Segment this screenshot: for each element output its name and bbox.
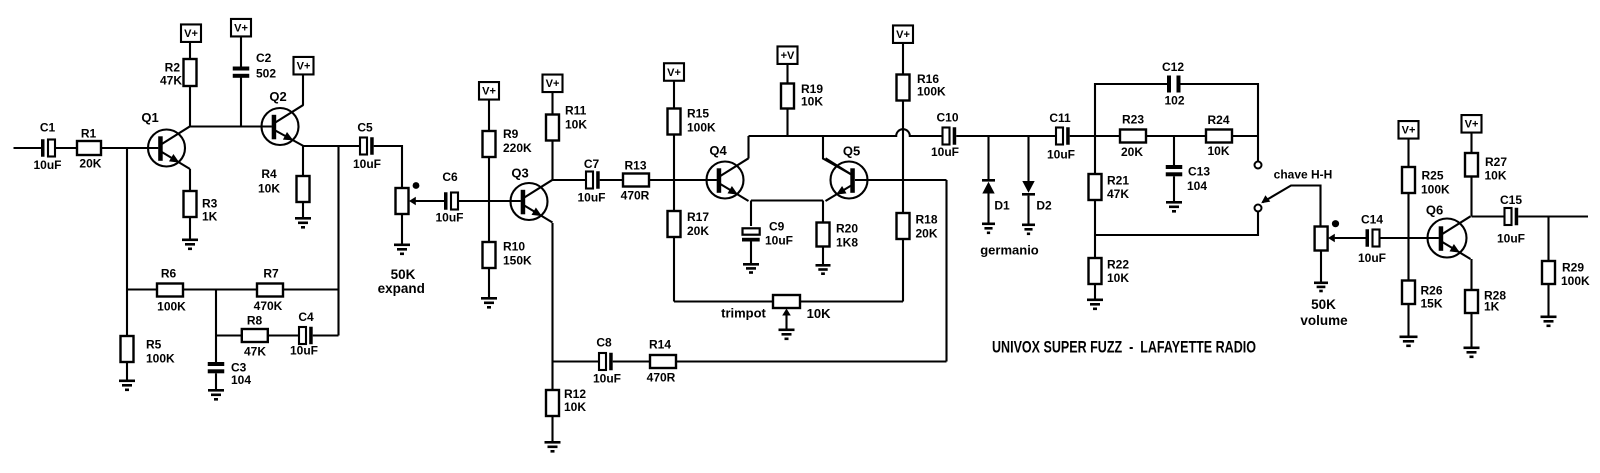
svg-text:47K: 47K: [160, 74, 182, 88]
svg-text:trimpot: trimpot: [721, 305, 766, 320]
svg-text:10K: 10K: [1485, 169, 1507, 183]
wire R4 branch: [302, 146, 304, 176]
resistor R3: [184, 191, 218, 239]
capacitor C4: [290, 310, 318, 358]
power V+ (R15): [664, 63, 684, 108]
svg-text:C4: C4: [298, 310, 314, 324]
ground (R12): [545, 441, 561, 444]
ground (R20): [816, 264, 831, 267]
wire Q4 collector riser: [747, 136, 749, 159]
svg-text:R13: R13: [624, 159, 646, 173]
svg-text:R5: R5: [146, 338, 162, 352]
capacitor C15: [1497, 193, 1525, 246]
svg-text:C11: C11: [1049, 111, 1071, 125]
svg-text:C12: C12: [1162, 60, 1184, 74]
svg-text:C7: C7: [584, 157, 600, 171]
svg-text:expand: expand: [378, 281, 425, 296]
svg-text:C5: C5: [357, 121, 373, 135]
svg-text:10K: 10K: [801, 95, 823, 109]
wire feedback vertical: [337, 146, 339, 336]
resistor R14: [647, 338, 676, 385]
wire C3 branch: [215, 290, 217, 363]
resistor R29: [1542, 261, 1590, 316]
ground (expand pot): [394, 244, 410, 247]
svg-text:10K: 10K: [807, 306, 831, 321]
wire R16 to R18: [902, 101, 904, 214]
ground (volume pot): [1314, 282, 1328, 285]
wire C8 to R14: [613, 360, 650, 362]
svg-text:100K: 100K: [917, 85, 946, 99]
svg-text:47K: 47K: [1107, 187, 1129, 201]
resistor R4: [258, 167, 310, 217]
svg-text:R18: R18: [916, 213, 938, 227]
power V+ (R27): [1462, 115, 1482, 153]
wire R6 to R7: [183, 288, 257, 290]
ground (R26): [1400, 336, 1418, 339]
wire C13 branch: [1173, 136, 1175, 165]
svg-text:10K: 10K: [565, 118, 587, 132]
wire C1 to R1: [55, 147, 77, 149]
transistor Q6: [1426, 203, 1471, 260]
ground (R28): [1464, 347, 1480, 350]
wire Q3 collector to C7: [553, 179, 587, 181]
ground (C9): [743, 263, 759, 266]
power V+ (R2): [181, 24, 201, 59]
wire trimpot rail right: [800, 300, 903, 302]
capacitor C10: [931, 111, 959, 160]
wire R17 to trimpot rail: [673, 237, 675, 302]
ground (D2): [1022, 224, 1035, 227]
svg-text:R2: R2: [165, 61, 181, 75]
svg-text:50K: 50K: [1311, 297, 1336, 312]
svg-text:10uF: 10uF: [290, 344, 318, 358]
svg-text:10uF: 10uF: [1358, 251, 1386, 265]
svg-text:V+: V+: [896, 29, 910, 41]
power V+ (R16): [893, 25, 913, 74]
svg-text:10uF: 10uF: [435, 211, 463, 225]
svg-text:C9: C9: [769, 220, 785, 234]
wire emitter node to C8: [553, 360, 600, 362]
power V+ (R25): [1399, 121, 1419, 167]
svg-text:10K: 10K: [1207, 144, 1229, 158]
wire wiper to C6: [416, 200, 445, 202]
wire Q3 collector to R11: [551, 115, 553, 181]
wire C11 to R23: [1070, 135, 1120, 137]
svg-text:Q1: Q1: [141, 110, 158, 125]
svg-text:+V: +V: [781, 50, 795, 62]
resistor R15: [668, 107, 717, 135]
resistor R6: [157, 267, 186, 314]
svg-text:10K: 10K: [1107, 271, 1129, 285]
wire Q6 emitter to R28: [1470, 259, 1472, 290]
resistor R8: [242, 314, 268, 359]
junction dot (expand pot): [413, 182, 420, 189]
wire Q3 emitter down: [551, 223, 553, 390]
capacitor C7: [577, 157, 605, 205]
svg-text:R23: R23: [1122, 113, 1144, 127]
svg-text:104: 104: [1187, 179, 1207, 193]
svg-text:R7: R7: [263, 267, 279, 281]
svg-text:150K: 150K: [503, 254, 532, 268]
svg-text:R15: R15: [687, 107, 709, 121]
wire R15 to R17: [673, 135, 675, 212]
wire C5 to expand pot: [374, 146, 402, 188]
svg-text:100K: 100K: [1421, 183, 1450, 197]
svg-text:R14: R14: [649, 338, 671, 352]
svg-text:10uF: 10uF: [765, 234, 793, 248]
ground (R29): [1541, 316, 1557, 319]
capacitor C3: [208, 361, 252, 390]
svg-text:10uF: 10uF: [593, 372, 621, 386]
svg-text:R20: R20: [836, 222, 858, 236]
svg-text:C10: C10: [936, 111, 958, 125]
svg-text:20K: 20K: [1121, 145, 1143, 159]
svg-text:UNIVOX SUPER FUZZ - LAFAYETT: UNIVOX SUPER FUZZ - LAFAYETTE RADIO: [992, 339, 1256, 357]
svg-text:Q2: Q2: [269, 89, 286, 104]
svg-text:Q4: Q4: [709, 143, 727, 158]
svg-text:20K: 20K: [79, 157, 101, 171]
svg-text:C13: C13: [1188, 164, 1210, 178]
resistor R22: [1089, 258, 1130, 299]
power V+ (R11): [543, 75, 563, 115]
svg-text:R12: R12: [564, 387, 586, 401]
svg-text:R17: R17: [687, 210, 709, 224]
wire R29 branch: [1547, 217, 1549, 262]
svg-text:V+: V+: [1402, 125, 1416, 137]
resistor R11: [546, 104, 587, 141]
transistor Q3: [511, 166, 553, 223]
wire R7 to feedback node: [283, 288, 339, 290]
transistor Q1: [141, 110, 190, 169]
svg-text:47K: 47K: [244, 345, 266, 359]
wire Q2 collector to V+: [302, 75, 304, 106]
junction dot (volume pot): [1332, 220, 1339, 227]
svg-text:10uF: 10uF: [353, 157, 381, 171]
resistor R19: [781, 82, 823, 136]
svg-text:V+: V+: [184, 28, 198, 40]
wire switch bottom to rail: [1095, 212, 1258, 236]
capacitor C6: [435, 170, 463, 225]
resistor R20: [817, 222, 859, 265]
switch chave H-H: [1255, 162, 1333, 227]
svg-text:R1: R1: [81, 126, 97, 140]
capacitor C5: [353, 121, 381, 172]
power +V (R19): [778, 46, 798, 83]
resistor R27: [1465, 153, 1507, 183]
capacitor C8: [593, 336, 621, 386]
capacitor C14: [1358, 213, 1386, 266]
ground (C13): [1166, 201, 1182, 204]
svg-text:volume: volume: [1300, 313, 1348, 328]
resistor R26: [1402, 281, 1443, 336]
wire Q5 collector drop: [823, 136, 854, 176]
wire R18 to trimpot rail: [902, 239, 904, 302]
svg-text:15K: 15K: [1421, 296, 1443, 310]
resistor R13: [621, 159, 650, 203]
svg-text:Q6: Q6: [1426, 203, 1443, 218]
resistor R5: [121, 336, 176, 380]
svg-text:104: 104: [231, 373, 251, 387]
resistor R2: [160, 59, 197, 88]
resistor R18: [897, 213, 938, 241]
svg-text:502: 502: [256, 67, 276, 81]
svg-text:220K: 220K: [503, 141, 532, 155]
svg-text:C2: C2: [256, 51, 272, 65]
wire C4 to feedback vertical: [313, 334, 339, 336]
svg-text:10uF: 10uF: [1047, 148, 1075, 162]
wire Q1 collector to R2: [189, 59, 191, 126]
wire C15 to output: [1518, 215, 1588, 217]
svg-text:1K: 1K: [1484, 300, 1500, 314]
svg-text:10uF: 10uF: [1497, 232, 1525, 246]
wire R13 to Q4 base node: [649, 179, 674, 181]
wire riser to Q5 base: [945, 180, 947, 362]
svg-text:C6: C6: [442, 170, 458, 184]
wire Q2 emitter to C5: [303, 145, 360, 147]
svg-text:R29: R29: [1562, 261, 1584, 275]
wire to R6: [127, 288, 157, 290]
transistor Q2: [262, 89, 304, 146]
wire C3 node to R8: [216, 334, 242, 336]
svg-text:50K: 50K: [391, 267, 416, 282]
resistor R1: [77, 126, 102, 170]
resistor R12: [546, 387, 586, 441]
svg-text:20K: 20K: [687, 224, 709, 238]
svg-text:470R: 470R: [621, 189, 650, 203]
svg-text:1K8: 1K8: [836, 236, 858, 250]
resistor R7: [254, 267, 283, 313]
wire C2 branch: [240, 77, 242, 127]
svg-text:R11: R11: [565, 104, 587, 118]
svg-text:100K: 100K: [1561, 274, 1590, 288]
svg-text:R6: R6: [161, 267, 177, 281]
svg-text:10K: 10K: [564, 400, 586, 414]
wire Q1 collector to Q2 base: [190, 125, 272, 127]
ground (R10): [481, 297, 497, 300]
svg-text:10uF: 10uF: [931, 145, 959, 159]
svg-text:R10: R10: [503, 240, 525, 254]
trimpot 10K: [721, 295, 831, 329]
svg-text:470K: 470K: [254, 299, 283, 313]
wire C9 branch: [750, 201, 752, 227]
wire trimpot rail left: [674, 300, 773, 302]
svg-text:R25: R25: [1422, 169, 1444, 183]
svg-text:R3: R3: [202, 197, 218, 211]
svg-text:470R: 470R: [647, 371, 676, 385]
capacitor C1: [33, 121, 61, 172]
ground (C3): [208, 389, 224, 392]
svg-text:R4: R4: [261, 167, 277, 181]
diode D2: [1022, 136, 1052, 224]
svg-text:V+: V+: [482, 86, 496, 98]
wire Q5 base to riser: [855, 179, 947, 181]
wire R21 to R22: [1094, 200, 1096, 258]
capacitor C12: [1162, 60, 1185, 108]
svg-text:R9: R9: [503, 127, 519, 141]
wire R8 to C4: [268, 334, 299, 336]
svg-text:D2: D2: [1036, 199, 1052, 213]
svg-text:V+: V+: [667, 67, 681, 79]
ground (trimpot): [779, 329, 795, 332]
svg-text:R8: R8: [247, 314, 263, 328]
transistor Q5: [826, 144, 868, 202]
svg-text:C14: C14: [1361, 213, 1383, 227]
svg-text:chave H-H: chave H-H: [1274, 168, 1333, 182]
svg-text:D1: D1: [994, 199, 1010, 213]
svg-text:102: 102: [1164, 94, 1184, 108]
wire C12 to switch top: [1181, 84, 1259, 161]
wire emitter rail Q4-Q5: [751, 199, 823, 201]
diode D1: [982, 136, 1010, 223]
svg-text:10uF: 10uF: [33, 158, 61, 172]
wire R21 top: [1094, 136, 1096, 174]
wire Q6 collector to R27: [1470, 176, 1472, 217]
power V+ (R9): [479, 82, 499, 131]
ground (R5): [119, 380, 135, 383]
resistor R23: [1120, 113, 1146, 160]
svg-text:C1: C1: [40, 121, 56, 135]
wire collector rail with hop: [749, 129, 944, 136]
capacitor C2: [233, 51, 277, 81]
wire Q6 collector to C15: [1472, 215, 1505, 217]
svg-text:germanio: germanio: [980, 242, 1039, 257]
wire C7 to R13: [600, 179, 623, 181]
wire base node to R6 row: [126, 148, 128, 290]
capacitor C11: [1047, 111, 1075, 162]
svg-text:V+: V+: [297, 61, 311, 73]
svg-text:100K: 100K: [687, 121, 716, 135]
resistor R16: [897, 72, 947, 101]
potentiometer 50K expand: [378, 188, 425, 296]
svg-text:C8: C8: [596, 336, 612, 350]
potentiometer 50K volume: [1300, 227, 1348, 329]
wire R9 to R10: [488, 157, 490, 242]
resistor R17: [668, 210, 710, 238]
resistor R28: [1465, 289, 1506, 347]
svg-text:R24: R24: [1207, 113, 1229, 127]
ground (R4): [295, 217, 311, 220]
svg-text:Q5: Q5: [843, 144, 860, 159]
wire node to Q4 base: [674, 179, 717, 181]
wire wiper to C14: [1335, 237, 1366, 239]
wire R5 branch: [126, 290, 128, 337]
resistor R24: [1206, 113, 1232, 158]
wire R25 to R26: [1407, 193, 1409, 281]
resistor R25: [1402, 167, 1450, 197]
wire R14 to Q5 base riser: [676, 360, 947, 362]
wire R1 to Q1 base: [101, 147, 158, 149]
svg-text:20K: 20K: [916, 227, 938, 241]
capacitor C13: [1166, 164, 1211, 201]
svg-text:V+: V+: [234, 23, 248, 35]
ground (R22): [1087, 299, 1103, 302]
svg-text:R21: R21: [1107, 174, 1129, 188]
svg-text:V+: V+: [1465, 119, 1479, 131]
svg-text:100K: 100K: [146, 352, 175, 366]
transistor Q4: [707, 143, 749, 201]
power V+ (C2): [231, 19, 251, 67]
wire R24 to switch: [1232, 135, 1258, 137]
svg-text:10K: 10K: [258, 182, 280, 196]
resistor R10: [483, 240, 533, 298]
wire input: [14, 147, 42, 149]
svg-text:R27: R27: [1485, 155, 1507, 169]
svg-text:100K: 100K: [157, 300, 186, 314]
power V+ (Q2): [294, 57, 314, 74]
wire C6 to Q3 base: [458, 200, 521, 202]
wire R20 branch: [822, 201, 824, 224]
ground (R3): [182, 239, 198, 242]
wire C10 to C11: [956, 135, 1056, 137]
resistor R9: [483, 127, 533, 157]
wire Q1 emitter to R3: [189, 169, 191, 191]
wire R23 to R24: [1146, 135, 1206, 137]
resistor R21: [1089, 174, 1130, 202]
wire C14 to Q6 base: [1380, 237, 1439, 239]
wire C12 feedback loop: [1095, 84, 1167, 136]
ground (D1): [982, 223, 995, 226]
svg-text:R22: R22: [1107, 258, 1129, 272]
svg-text:10uF: 10uF: [577, 191, 605, 205]
svg-text:V+: V+: [546, 78, 560, 90]
svg-text:C15: C15: [1500, 193, 1522, 207]
capacitor C9: [742, 220, 793, 264]
svg-text:Q3: Q3: [511, 166, 528, 181]
svg-text:1K: 1K: [202, 210, 218, 224]
